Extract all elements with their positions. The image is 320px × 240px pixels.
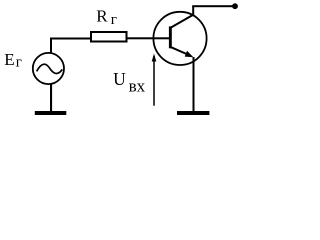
collector stub up — [192, 6, 194, 16]
resistor R_г — [91, 32, 127, 42]
svg-text:R: R — [96, 7, 108, 26]
AC source sine wave — [37, 64, 63, 73]
transistor emitter diagonal — [171, 47, 190, 55]
transistor collector diagonal — [171, 15, 193, 28]
wire source to ground — [50, 84, 52, 112]
arrow U_вх — [153, 56, 155, 106]
AC source E_g circle — [33, 53, 64, 84]
emitter arrowhead — [185, 51, 194, 57]
ground (right) — [177, 111, 209, 115]
svg-text:г: г — [111, 12, 117, 28]
svg-text:г: г — [16, 55, 22, 71]
svg-text:U: U — [113, 69, 126, 89]
transistor Q1 circle — [153, 12, 206, 65]
wire collector to output — [192, 5, 235, 7]
ground (left) — [35, 111, 67, 115]
svg-text:Е: Е — [4, 50, 14, 69]
wire resistor to base — [127, 37, 169, 39]
transistor base bar — [169, 26, 172, 48]
wire source top to resistor — [51, 39, 90, 53]
output terminal dot — [232, 3, 238, 9]
svg-text:вх: вх — [129, 77, 146, 96]
emitter wire down — [193, 57, 195, 112]
